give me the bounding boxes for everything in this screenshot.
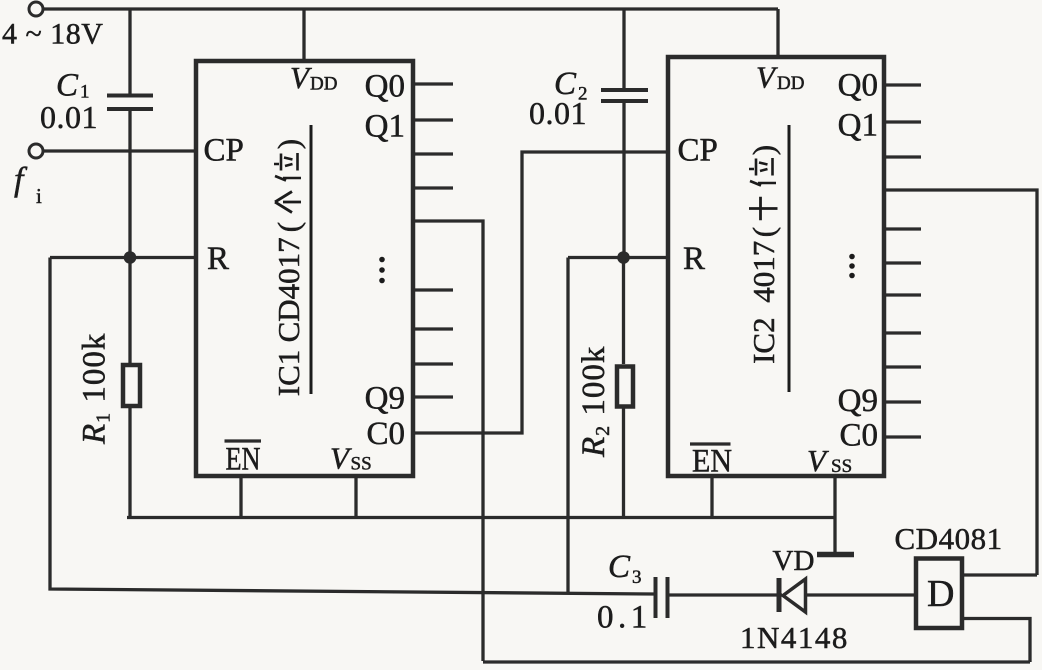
capacitor C1 — [107, 9, 153, 258]
svg-text:DD: DD — [310, 74, 337, 95]
underline of IC1 label — [310, 125, 313, 394]
wire R node down-left to C3 — [50, 258, 654, 595]
svg-text:DD: DD — [777, 73, 804, 94]
wire R node IC2 down to C3 — [566, 258, 569, 595]
svg-text:1N4148: 1N4148 — [740, 620, 849, 655]
junction dot R node IC2 — [617, 251, 630, 264]
svg-text:V: V — [807, 443, 829, 478]
label C2 — [554, 66, 588, 105]
input terminal fi — [29, 144, 43, 158]
svg-text:VD: VD — [773, 545, 815, 577]
pin R IC1 — [207, 241, 229, 277]
label IC1 CD4017 (rotated) — [271, 139, 306, 396]
svg-text:V: V — [330, 441, 352, 476]
label C3 — [608, 549, 642, 588]
pin Q1 IC1 — [365, 109, 405, 145]
svg-text:4 ~ 18V: 4 ~ 18V — [2, 18, 103, 51]
label R1 100k — [77, 333, 115, 445]
svg-text:C0: C0 — [366, 416, 405, 452]
pin Q9 IC1 — [365, 381, 405, 417]
svg-text:Q1: Q1 — [365, 109, 405, 145]
pin CP IC2 — [678, 133, 718, 169]
pin Q1 IC2 — [838, 108, 878, 144]
svg-text:Q0: Q0 — [365, 69, 405, 105]
pin EN IC1 — [225, 441, 262, 478]
IC U1 CD4017 box — [196, 61, 413, 476]
resistor R1 — [123, 258, 140, 518]
wire EN2 to ground rail — [710, 476, 713, 518]
wire VSS1 to ground rail — [354, 476, 357, 518]
label R2 100k — [576, 346, 614, 458]
svg-text:SS: SS — [351, 454, 372, 475]
label C2 value 0.01 — [529, 95, 587, 131]
underline of IC2 label — [788, 125, 791, 392]
svg-text:C: C — [608, 549, 631, 585]
svg-text:0.01: 0.01 — [529, 95, 587, 131]
svg-text:0.01: 0.01 — [40, 99, 98, 135]
svg-text:SS: SS — [831, 456, 852, 477]
pin Q0 IC2 — [838, 68, 878, 104]
svg-text:V: V — [290, 60, 312, 95]
svg-text:0.1: 0.1 — [597, 600, 652, 636]
pin R IC2 — [683, 241, 705, 277]
svg-text:C0: C0 — [839, 418, 878, 454]
pin stubs Q4-C0 IC2 — [884, 229, 921, 437]
label VSS IC2 — [807, 443, 852, 478]
pin stubs Q0-Q3 IC1 — [413, 84, 453, 188]
svg-text:Q9: Q9 — [365, 381, 405, 417]
svg-text:R: R — [683, 241, 705, 277]
svg-text:Q1: Q1 — [838, 108, 878, 144]
CJK wei — [749, 158, 776, 186]
label 4~18V — [2, 18, 103, 51]
wire gate input lower from IC1 Q — [963, 619, 1030, 663]
wire VDD drop IC1 — [302, 9, 305, 61]
wire EN1 to ground rail — [239, 476, 242, 518]
svg-text:EN: EN — [226, 442, 261, 478]
CJK shi — [749, 197, 778, 221]
svg-text:Q9: Q9 — [838, 383, 878, 419]
svg-text:EN: EN — [692, 444, 732, 480]
wire Q3 IC2 to gate input (long) — [884, 190, 1037, 575]
wire gate input upper from IC2 Q — [963, 573, 1037, 576]
wire fi to CP — [44, 149, 196, 152]
wire R node IC1 — [50, 256, 196, 259]
pin C0 IC2 — [839, 418, 878, 454]
svg-text:CP: CP — [678, 133, 718, 169]
pin Q0 IC1 — [365, 69, 405, 105]
svg-text:R2 100k: R2 100k — [576, 346, 614, 458]
junction dot R node IC1 — [124, 251, 137, 264]
AND gate D (CD4081) box — [916, 559, 962, 629]
label VD — [773, 545, 815, 577]
wire C0 IC1 to CP IC2 — [413, 152, 668, 433]
pin C0 IC1 — [366, 416, 405, 452]
CJK ge — [275, 192, 301, 213]
svg-text:3: 3 — [632, 567, 642, 588]
label D — [927, 573, 954, 615]
power terminal — [29, 2, 43, 16]
svg-text:CP: CP — [204, 133, 244, 169]
pin CP IC1 — [204, 133, 244, 169]
capacitor C2 — [601, 9, 648, 258]
label CD4081 — [895, 521, 1003, 556]
CJK wei — [274, 153, 301, 181]
label C3 value 0.1 — [597, 600, 652, 636]
wire top supply rail — [44, 7, 778, 10]
wire ground rail — [127, 516, 835, 519]
label VDD IC2 — [756, 60, 804, 95]
svg-text:D: D — [927, 573, 954, 615]
wire bottom return — [483, 660, 1030, 663]
ellipsis dots IC2 — [849, 254, 855, 279]
pin EN IC2 — [690, 444, 732, 480]
IC U2 CD4017 box — [668, 57, 884, 476]
label VSS IC1 — [330, 441, 372, 476]
ground symbol — [817, 552, 854, 558]
pin Q9 IC2 — [838, 383, 878, 419]
pin stubs Q0-Q2 IC2 — [884, 85, 921, 157]
svg-text:R: R — [207, 241, 229, 277]
wire VSS2 to ground — [833, 476, 836, 553]
pin stubs Q5-Q9 IC1 — [413, 290, 453, 397]
svg-text:i: i — [36, 184, 42, 208]
wire Q4 IC1 to gate input (long) — [413, 221, 483, 661]
diode VD 1N4148 — [779, 578, 916, 612]
ellipsis dots IC1 — [379, 257, 385, 284]
svg-text:CD4081: CD4081 — [895, 521, 1003, 556]
capacitor C3 — [656, 577, 783, 618]
label 1N4148 — [740, 620, 849, 655]
svg-text:V: V — [756, 60, 778, 95]
svg-text:Q0: Q0 — [838, 68, 878, 104]
label C1 value 0.01 — [40, 99, 98, 135]
label VDD IC1 — [290, 60, 337, 95]
svg-text:R1 100k: R1 100k — [77, 333, 115, 445]
label C1 — [56, 68, 90, 104]
wire VDD drop IC2 — [776, 9, 779, 57]
resistor R2 — [617, 258, 633, 518]
wire R node IC2 — [568, 256, 668, 259]
label fi — [14, 162, 42, 209]
label IC2 4017 (rotated) — [746, 145, 781, 364]
